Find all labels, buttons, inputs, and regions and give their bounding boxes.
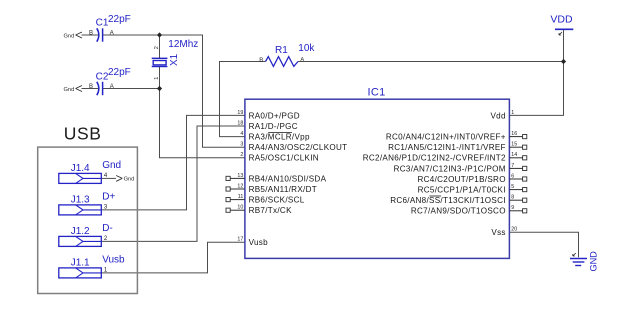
svg-text:D-: D- xyxy=(102,223,113,234)
svg-text:VDD: VDD xyxy=(550,14,573,26)
svg-text:A: A xyxy=(110,84,114,90)
svg-text:D+: D+ xyxy=(102,191,115,202)
svg-text:Vusb: Vusb xyxy=(102,254,125,265)
svg-text:15: 15 xyxy=(511,142,517,148)
svg-text:22pF: 22pF xyxy=(108,67,131,78)
svg-text:Vss: Vss xyxy=(491,228,505,237)
svg-text:B: B xyxy=(89,30,93,36)
svg-text:RC0/AN4/C12IN+/INT0/VREF+: RC0/AN4/C12IN+/INT0/VREF+ xyxy=(386,133,506,142)
svg-text:12: 12 xyxy=(237,183,243,189)
svg-text:B: B xyxy=(89,84,93,90)
svg-text:11: 11 xyxy=(238,194,244,200)
svg-text:J1.3: J1.3 xyxy=(71,194,90,205)
svg-text:RB4/AN10/SDI/SDA: RB4/AN10/SDI/SDA xyxy=(249,174,327,183)
svg-text:20: 20 xyxy=(511,227,517,233)
svg-text:8: 8 xyxy=(511,195,514,201)
svg-text:10: 10 xyxy=(237,205,243,211)
svg-text:13: 13 xyxy=(237,173,243,179)
svg-text:17: 17 xyxy=(237,237,243,243)
svg-text:RC5/CCP1/P1A/T0CKI: RC5/CCP1/P1A/T0CKI xyxy=(418,186,506,195)
svg-text:Gnd: Gnd xyxy=(124,177,135,183)
svg-text:RC1/AN5/C12IN1-/INT1/VREF: RC1/AN5/C12IN1-/INT1/VREF xyxy=(388,143,506,152)
svg-text:C2: C2 xyxy=(96,71,109,82)
svg-text:R1: R1 xyxy=(275,45,288,56)
svg-text:19: 19 xyxy=(237,110,243,116)
svg-text:RC6/AN8/SS/T13CKI/T1OSCI: RC6/AN8/SS/T13CKI/T1OSCI xyxy=(390,196,506,205)
svg-text:10k: 10k xyxy=(298,43,315,54)
svg-text:J1.4: J1.4 xyxy=(71,163,90,174)
svg-text:4: 4 xyxy=(240,131,243,137)
svg-text:RC4/C2OUT/P1B/SRO: RC4/C2OUT/P1B/SRO xyxy=(417,175,505,184)
svg-text:2: 2 xyxy=(240,152,243,158)
svg-text:RB6/SCK/SCL: RB6/SCK/SCL xyxy=(249,196,305,205)
svg-text:RA0/D+/PGD: RA0/D+/PGD xyxy=(249,111,300,120)
svg-text:USB: USB xyxy=(64,124,102,144)
svg-text:Gnd: Gnd xyxy=(64,87,75,93)
svg-text:IC1: IC1 xyxy=(367,86,385,98)
svg-text:RA4/AN3/OSC2/CLKOUT: RA4/AN3/OSC2/CLKOUT xyxy=(249,143,348,152)
svg-text:6: 6 xyxy=(511,173,514,179)
svg-text:GND: GND xyxy=(589,251,599,272)
svg-text:RB7/Tx/CK: RB7/Tx/CK xyxy=(249,206,292,215)
svg-text:14: 14 xyxy=(511,152,517,158)
svg-text:RC2/AN6/P1D/C12IN2-/CVREF/INT2: RC2/AN6/P1D/C12IN2-/CVREF/INT2 xyxy=(363,154,506,163)
svg-text:5: 5 xyxy=(511,184,514,190)
svg-text:2: 2 xyxy=(154,46,160,49)
svg-text:7: 7 xyxy=(511,163,514,169)
svg-text:Vdd: Vdd xyxy=(490,111,505,120)
svg-text:B: B xyxy=(259,58,263,64)
svg-text:X1: X1 xyxy=(169,53,180,66)
svg-text:A: A xyxy=(110,30,114,36)
svg-text:RC7/AN9/SDO/T1OSCO: RC7/AN9/SDO/T1OSCO xyxy=(411,207,506,216)
svg-text:C1: C1 xyxy=(96,18,109,29)
svg-text:A: A xyxy=(300,57,304,63)
svg-text:16: 16 xyxy=(511,131,517,137)
svg-text:Gnd: Gnd xyxy=(64,33,75,39)
svg-text:RA5/OSC1/CLKIN: RA5/OSC1/CLKIN xyxy=(249,154,319,163)
svg-text:22pF: 22pF xyxy=(108,14,131,25)
svg-text:J1.1: J1.1 xyxy=(71,257,90,268)
svg-text:RA1/D-/PGC: RA1/D-/PGC xyxy=(249,122,298,131)
svg-text:3: 3 xyxy=(240,142,243,148)
svg-text:1: 1 xyxy=(511,110,514,116)
svg-text:12Mhz: 12Mhz xyxy=(168,39,198,50)
svg-text:1: 1 xyxy=(154,77,160,80)
svg-text:RC3/AN7/C12IN3-/P1C/POM: RC3/AN7/C12IN3-/P1C/POM xyxy=(394,164,506,173)
svg-text:J1.2: J1.2 xyxy=(71,226,90,237)
svg-text:Vusb: Vusb xyxy=(249,238,269,247)
svg-text:RA3/MCLR/Vpp: RA3/MCLR/Vpp xyxy=(249,133,310,142)
svg-text:Gnd: Gnd xyxy=(102,160,121,171)
svg-text:18: 18 xyxy=(237,120,243,126)
svg-text:9: 9 xyxy=(511,205,514,211)
svg-text:RB5/AN11/RX/DT: RB5/AN11/RX/DT xyxy=(249,185,317,194)
